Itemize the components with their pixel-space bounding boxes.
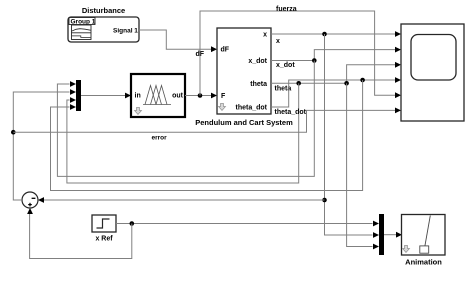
wire x_dot feedback	[57, 61, 314, 177]
arrowhead into anim mux in2	[373, 232, 379, 238]
wire fuerza up and over	[200, 11, 395, 96]
wire x Ref output	[116, 223, 373, 225]
svg-text:Disturbance: Disturbance	[82, 6, 125, 15]
junction x to sum	[322, 198, 327, 203]
arrowhead into F	[211, 93, 217, 99]
wire theta to animation	[347, 83, 373, 246]
svg-text:x_dot: x_dot	[248, 58, 267, 65]
block Animation	[402, 215, 446, 256]
arrowhead into scope in2	[395, 47, 401, 53]
arrowhead into Animation	[396, 232, 402, 238]
svg-text:x: x	[276, 38, 280, 45]
svg-text:x: x	[263, 32, 267, 39]
wire error to scope in6	[13, 110, 395, 132]
svg-text:theta_dot: theta_dot	[275, 109, 307, 116]
block Scope	[401, 24, 464, 121]
sum block	[22, 192, 38, 208]
wire x output to scope in1	[271, 33, 395, 35]
wire x feedback down	[325, 34, 373, 235]
arrowhead into scope in4	[395, 77, 401, 83]
wire Disturbance to dF	[139, 30, 211, 49]
arrowhead into sum bottom	[27, 208, 33, 214]
svg-text:x_dot: x_dot	[276, 62, 295, 69]
wire x_dot output	[271, 50, 395, 61]
svg-text:out: out	[172, 93, 184, 100]
junction theta branch anim	[344, 81, 349, 86]
wire x Ref to sum plus	[30, 210, 132, 259]
block Disturbance (signal builder)	[68, 17, 139, 42]
wire theta_dot output	[271, 80, 395, 107]
junction x Ref branch	[130, 221, 135, 226]
wire theta output	[271, 65, 395, 84]
mux Mux1	[70, 80, 81, 111]
mux Mux2 (animation)	[379, 214, 384, 255]
arrowhead into anim mux in1	[373, 221, 379, 227]
arrowhead into dF	[211, 46, 217, 52]
arrowhead into scope in3	[395, 62, 401, 68]
svg-text:Pendulum and Cart System: Pendulum and Cart System	[195, 118, 293, 127]
block Pendulum and Cart System	[217, 28, 271, 114]
svg-text:Animation: Animation	[405, 258, 442, 267]
arrowhead into scope in1	[395, 31, 401, 37]
arrowhead into scope in5	[395, 92, 401, 98]
wire sum output error	[13, 92, 69, 200]
wire fuzzy out to F	[185, 95, 211, 97]
arrowhead into anim mux in3	[373, 244, 379, 250]
svg-text:in: in	[135, 93, 141, 100]
svg-text:x Ref: x Ref	[95, 236, 113, 243]
svg-text:F: F	[221, 93, 226, 100]
svg-text:Group 1: Group 1	[71, 19, 96, 26]
wire mux to fuzzy	[81, 95, 125, 97]
svg-text:error: error	[152, 135, 168, 142]
block x Ref (step)	[92, 215, 116, 232]
svg-text:fuerza: fuerza	[276, 6, 297, 13]
svg-text:dF: dF	[221, 47, 230, 54]
wire x to sum minus	[40, 199, 325, 201]
wire anim mux to Animation	[384, 234, 396, 236]
wire theta feedback to mux	[67, 83, 299, 183]
svg-text:theta: theta	[250, 81, 267, 88]
junction theta branch left	[296, 81, 301, 86]
junction theta_dot branch	[360, 78, 365, 83]
svg-text:theta_dot: theta_dot	[236, 105, 268, 112]
junction x branch	[322, 32, 327, 37]
block Fuzzy Logic Controller	[131, 74, 185, 117]
svg-text:Signal 1: Signal 1	[113, 28, 138, 35]
wire theta_dot feedback	[51, 80, 363, 191]
arrowhead into sum right	[38, 197, 44, 203]
junction error branch	[11, 130, 16, 135]
arrowhead into fuzzy in	[125, 93, 131, 99]
junction fuzzy out	[198, 93, 203, 98]
junction x_dot branch	[312, 58, 317, 63]
arrowhead into scope in6	[395, 108, 401, 114]
